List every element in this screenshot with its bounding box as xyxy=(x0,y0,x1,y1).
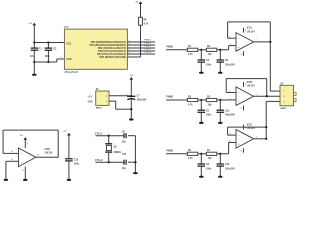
svg-text:PWM3: PWM3 xyxy=(166,151,173,153)
svg-text:100n: 100n xyxy=(206,168,212,170)
svg-text:LM 324: LM 324 xyxy=(45,152,54,155)
svg-text:100n: 100n xyxy=(206,64,212,66)
svg-text:11: 11 xyxy=(22,170,24,172)
svg-text:GND: GND xyxy=(88,102,93,104)
svg-text:C11: C11 xyxy=(225,110,230,112)
svg-text:PWM 2: PWM 2 xyxy=(144,43,152,45)
svg-text:4: 4 xyxy=(60,56,61,59)
svg-text:+5 V: +5 V xyxy=(88,96,93,98)
svg-text:11: 11 xyxy=(241,108,243,110)
svg-text:C10: C10 xyxy=(122,154,127,156)
svg-text:LM 324: LM 324 xyxy=(247,30,256,33)
svg-text:100u/16V: 100u/16V xyxy=(225,115,235,117)
svg-text:100u/16V: 100u/16V xyxy=(225,168,235,170)
svg-text:12: 12 xyxy=(11,159,13,161)
svg-text:IC2C: IC2C xyxy=(247,125,253,127)
svg-text:XTA L1: XTA L1 xyxy=(144,48,152,51)
svg-text:IC2A: IC2A xyxy=(247,27,253,30)
svg-text:XTA L1: XTA L1 xyxy=(95,133,103,136)
svg-text:100u/16V: 100u/16V xyxy=(225,64,235,66)
svg-text:C13: C13 xyxy=(74,159,79,161)
svg-text:VCC: VCC xyxy=(66,43,71,46)
svg-text:47u: 47u xyxy=(30,55,35,58)
svg-text:100n: 100n xyxy=(206,115,212,117)
svg-text:16MHz: 16MHz xyxy=(114,152,122,154)
svg-text:4.7k: 4.7k xyxy=(188,157,193,160)
svg-text:14: 14 xyxy=(37,153,39,156)
svg-text:4: 4 xyxy=(27,142,28,145)
svg-text:IC2B: IC2B xyxy=(247,82,253,84)
svg-text:8: 8 xyxy=(60,41,61,43)
svg-text:PWM 1: PWM 1 xyxy=(144,40,152,42)
svg-text:LM 324: LM 324 xyxy=(247,127,256,130)
svg-text:22p: 22p xyxy=(122,168,127,170)
svg-text:100u/16V: 100u/16V xyxy=(137,100,147,102)
svg-text:4.7k: 4.7k xyxy=(144,23,149,26)
svg-text:PWM 3: PWM 3 xyxy=(144,46,152,48)
svg-text:C12: C12 xyxy=(225,164,230,166)
svg-text:100n: 100n xyxy=(74,164,80,166)
svg-text:11: 11 xyxy=(241,151,243,153)
svg-text:4.7k: 4.7k xyxy=(188,103,193,106)
svg-text:PWM2: PWM2 xyxy=(166,97,173,99)
svg-text:AMP1: AMP1 xyxy=(280,107,287,110)
svg-text:4.7k: 4.7k xyxy=(188,53,193,56)
svg-text:XTA L2: XTA L2 xyxy=(144,51,152,54)
svg-text:100n: 100n xyxy=(45,56,51,58)
svg-text:AMP2: AMP2 xyxy=(96,107,103,110)
svg-text:GND: GND xyxy=(66,58,72,61)
svg-text:22p: 22p xyxy=(122,142,127,144)
svg-text:PWM1: PWM1 xyxy=(166,47,173,49)
svg-text:IC1: IC1 xyxy=(64,25,69,29)
svg-text:11: 11 xyxy=(241,54,243,56)
svg-text:IC2D: IC2D xyxy=(45,149,51,151)
svg-text:XTA L2: XTA L2 xyxy=(95,159,103,162)
svg-text:LM 324: LM 324 xyxy=(247,85,256,88)
svg-text:13: 13 xyxy=(11,151,13,153)
svg-text:ATtiny25-20: ATtiny25-20 xyxy=(64,71,78,74)
svg-text:PB5 (RESET/ADC0/dW): PB5 (RESET/ADC0/dW) xyxy=(99,56,126,59)
